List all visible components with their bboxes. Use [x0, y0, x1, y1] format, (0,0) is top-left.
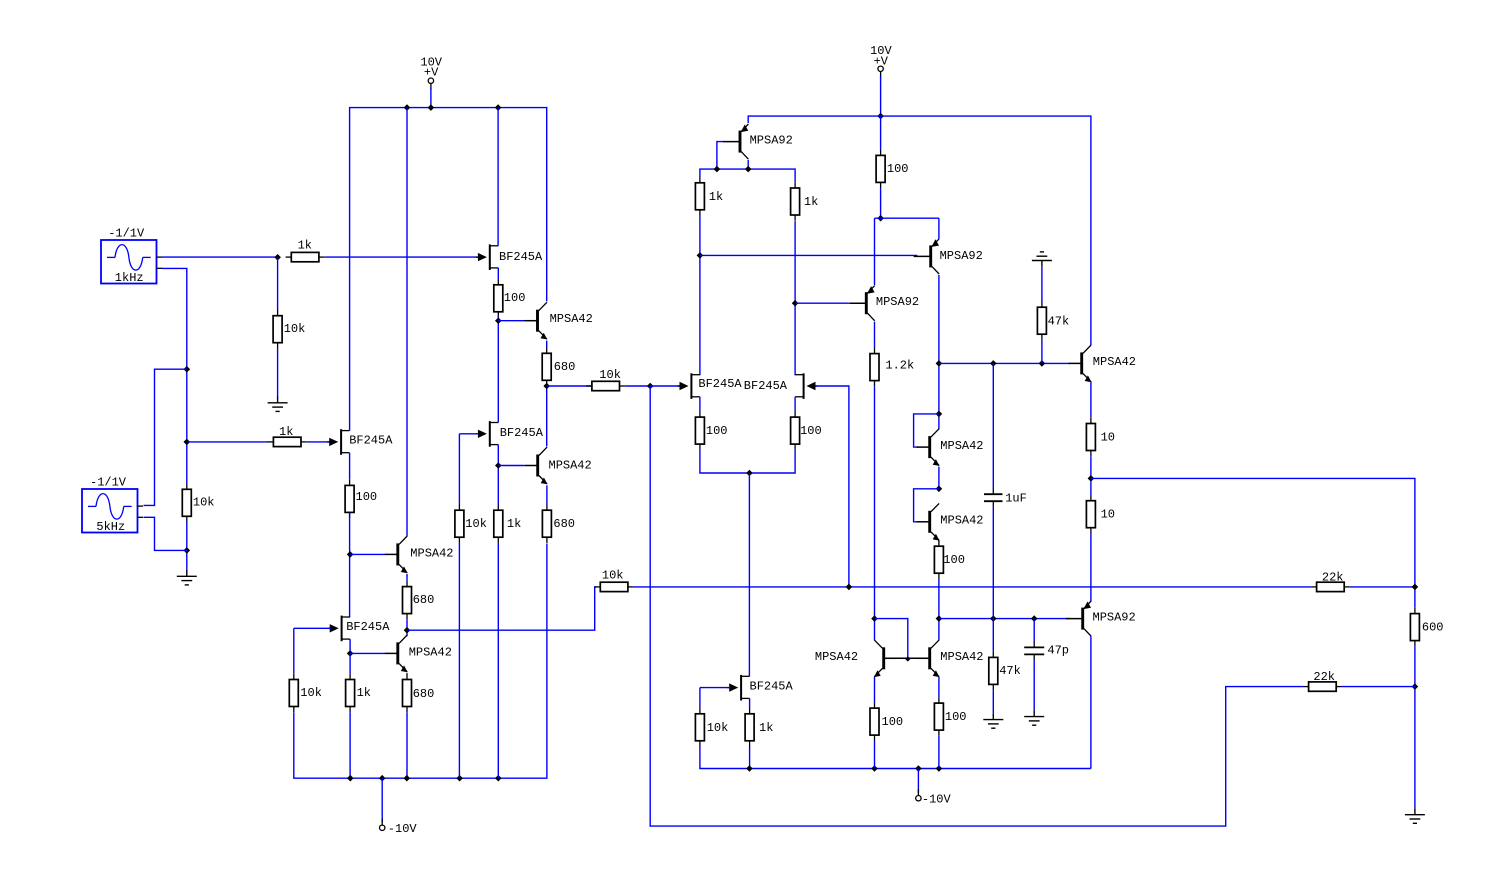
svg-text:BF245A: BF245A — [349, 434, 393, 448]
node X — [1088, 475, 1095, 482]
resistor R 10k d — [455, 505, 487, 543]
svg-text:10k: 10k — [193, 496, 215, 510]
node rail1b x350 — [347, 775, 354, 782]
svg-text:1k: 1k — [759, 721, 773, 735]
wire Q-BF3 gate wire — [294, 627, 331, 629]
svg-text:+V: +V — [874, 54, 889, 68]
wire R10k c to rail -10V — [294, 544, 547, 779]
node M2 — [745, 166, 752, 173]
resistor R 10k bias1 — [273, 310, 305, 348]
svg-text:MPSA92: MPSA92 — [1093, 611, 1136, 625]
wire diode1 loop — [914, 414, 939, 447]
node G — [647, 383, 654, 390]
node F — [543, 383, 550, 390]
terminal +V left — [428, 78, 433, 90]
terminal +V right — [878, 66, 883, 78]
wire Q-BF1 source to R100a — [497, 268, 499, 279]
transistor Q13 MPSA42 — [917, 640, 984, 677]
svg-text:1k: 1k — [804, 195, 818, 209]
svg-text:1k: 1k — [298, 239, 312, 253]
node rail3 x938 — [936, 765, 943, 772]
wire output line — [1091, 478, 1415, 608]
node Z — [1412, 683, 1419, 690]
terminal -10V right — [916, 789, 921, 801]
node T1 — [936, 411, 943, 418]
svg-text:MPSA42: MPSA42 — [1093, 355, 1136, 369]
node D — [184, 547, 191, 554]
wire node G to Q-BF5 gate — [650, 385, 679, 387]
wire R1k1 to Q-BF1 gate — [325, 256, 478, 258]
wire R10k coupling to node G — [625, 385, 650, 387]
wire R1k d to rail — [497, 543, 499, 778]
resistor R 10k mid — [182, 484, 214, 522]
node rail1 +V — [428, 104, 435, 111]
wire R22k top to node Y — [1350, 586, 1415, 588]
wire Q2 emitter to R680 mid — [546, 485, 548, 504]
transistor Q1 MPSA42 — [525, 302, 593, 339]
resistor R 100 e — [695, 411, 727, 449]
terminal -10V left — [380, 819, 385, 831]
wire Q1 emitter to R680a — [546, 341, 548, 348]
svg-text:22k: 22k — [1313, 670, 1335, 684]
wire R100top to node P — [880, 188, 882, 218]
resistor R 100 a — [494, 279, 526, 317]
svg-text:680: 680 — [413, 593, 435, 607]
node K — [347, 650, 354, 657]
svg-text:10: 10 — [1101, 508, 1115, 522]
JFET Q-BF7 BF245A — [727, 675, 793, 701]
source V1 1kHz — [101, 227, 162, 285]
wire rail3 -10V — [700, 747, 1091, 769]
wire R100b to node H — [349, 513, 351, 618]
wire node C to R 1k in2 — [187, 441, 269, 443]
wire gnd3 to R47k a — [1041, 267, 1043, 302]
node R — [871, 615, 878, 622]
node rail1b x498 — [495, 775, 502, 782]
ground GND1 — [268, 397, 288, 412]
wire R1k c to rail — [349, 712, 351, 778]
svg-text:BF245A: BF245A — [744, 379, 788, 393]
wire R100 g to rail3 — [874, 741, 876, 769]
node rail3 x749 — [746, 765, 753, 772]
node U2 — [990, 615, 997, 622]
resistor R 100 c — [934, 541, 965, 579]
wire Q5 base loop — [717, 142, 724, 170]
wire node P left down to Q7 emitter — [874, 218, 876, 285]
wire diode2 loop — [914, 489, 939, 522]
svg-text:600: 600 — [1422, 621, 1444, 635]
wire node Q to Q7 base — [795, 302, 849, 304]
svg-text:10k: 10k — [300, 686, 322, 700]
resistor R 100 f — [791, 411, 822, 449]
svg-text:10k: 10k — [599, 368, 621, 382]
node M1 — [714, 166, 721, 173]
resistor R 1k in2 — [268, 425, 307, 447]
node A — [274, 254, 281, 261]
resistor R 1.2k — [870, 348, 914, 386]
resistor R 10k fb — [595, 568, 634, 591]
svg-text:100: 100 — [800, 424, 822, 438]
wire V1.p1 to node A — [162, 256, 278, 258]
wire Q11 emitter to R10 a — [1090, 382, 1092, 418]
wire Q-BF3 source to node K — [349, 639, 351, 653]
wire node U3 to C47p — [1033, 619, 1035, 642]
node rail1 x498 — [495, 104, 502, 111]
wire node F to R10k coupling — [547, 385, 592, 387]
resistor R 1k L — [695, 177, 723, 215]
wire Q-BF7 gate to R10k e — [699, 688, 701, 709]
svg-text:47k: 47k — [999, 664, 1021, 678]
resistor R 100 top — [876, 150, 908, 188]
wire R10a to node X to R10b — [1090, 456, 1092, 495]
svg-text:-1/1V: -1/1V — [108, 227, 145, 241]
ground GND4 — [983, 713, 1003, 728]
svg-text:BF245A: BF245A — [698, 377, 742, 391]
svg-text:1k: 1k — [507, 517, 521, 531]
wire R680c to rail — [406, 712, 408, 778]
svg-text:22k: 22k — [1322, 570, 1344, 584]
node B — [184, 366, 191, 373]
resistor R 22k top — [1311, 570, 1350, 591]
svg-text:BF245A: BF245A — [750, 680, 794, 694]
wire node A to R10k bias1 — [277, 257, 279, 310]
resistor R 680 mid — [542, 505, 575, 543]
wire node U2 to R47k b — [992, 619, 994, 652]
resistor R 680 c — [403, 674, 435, 712]
wire rail2 +10V — [748, 116, 1091, 345]
svg-text:MPSA42: MPSA42 — [940, 514, 983, 528]
wire R10k bias1 to ground — [277, 348, 279, 397]
svg-text:680: 680 — [413, 687, 435, 701]
wire node K to Q4 base — [350, 652, 385, 654]
transistor Q2 MPSA42 — [525, 447, 592, 484]
node C — [184, 439, 191, 446]
wire node N to Q6 base — [700, 254, 917, 256]
svg-text:MPSA42: MPSA42 — [409, 645, 452, 659]
wire R1k e to rail3 — [749, 747, 751, 769]
resistor R 680 a — [542, 348, 575, 386]
wire diode1 emitter — [938, 467, 940, 489]
node Y — [1412, 584, 1419, 591]
svg-text:MPSA42: MPSA42 — [815, 650, 858, 664]
transistor Q11 MPSA42 — [1069, 345, 1136, 382]
ground GND6 — [1405, 808, 1425, 823]
resistor R 10k c — [289, 674, 322, 712]
resistor R 100 b — [345, 480, 377, 518]
resistor R 100 g — [870, 702, 903, 740]
wire node P right down to Q6 emitter — [938, 218, 940, 239]
svg-text:100: 100 — [887, 162, 909, 176]
wire R1kL to node N to Q-BF5 drain — [699, 216, 701, 376]
svg-text:100: 100 — [882, 715, 904, 729]
wire node B to V2.p1 — [144, 369, 187, 505]
node W — [905, 656, 910, 661]
svg-text:10k: 10k — [602, 568, 624, 582]
svg-text:+V: +V — [424, 66, 439, 80]
transistor Q3 MPSA42 — [385, 536, 454, 573]
wire Q-BF3 gate to R10k c — [293, 628, 295, 674]
node L — [495, 462, 502, 469]
wire +V right to rail2 — [880, 76, 882, 116]
svg-text:1uF: 1uF — [1005, 491, 1027, 505]
resistor R 1k c — [346, 674, 371, 712]
wire R10k mid to node D — [186, 522, 188, 570]
resistor R 10 a — [1086, 418, 1115, 456]
svg-text:MPSA42: MPSA42 — [549, 459, 592, 473]
resistor R 10k e — [695, 708, 728, 746]
svg-text:100: 100 — [943, 553, 965, 567]
svg-text:5kHz: 5kHz — [96, 520, 125, 534]
svg-text:MPSA92: MPSA92 — [940, 249, 983, 263]
wire Q-BF7 gate wire — [700, 687, 730, 689]
node S2 — [990, 360, 997, 367]
label +V left 10V — [420, 56, 442, 70]
svg-text:1k: 1k — [279, 425, 293, 439]
wire diode2 emitter to R100c — [938, 540, 940, 543]
transistor Q12 MPSA92 — [1066, 601, 1136, 636]
wire R47k a to node S3 — [1041, 340, 1043, 364]
wire Q3 emitter to R680b — [406, 574, 408, 581]
wire node K to R1k c — [349, 653, 351, 673]
svg-text:-10V: -10V — [922, 793, 952, 807]
svg-text:47k: 47k — [1048, 315, 1070, 329]
node H — [347, 551, 354, 558]
wire node H to Q3 base — [350, 553, 385, 555]
wire R680a to node F to Q2 collector — [546, 386, 548, 446]
node P — [877, 215, 884, 222]
transistor Q7 MPSA92 — [849, 286, 919, 321]
transistor Q9 MPSA42 — [917, 429, 984, 466]
svg-text:1.2k: 1.2k — [885, 358, 914, 372]
wire node V to Q-BF7 drain — [748, 473, 750, 676]
wire R100c to node U to Q13 collector — [938, 579, 940, 640]
wire +V left to rail — [430, 88, 432, 108]
wire Q5 collector to node M — [747, 160, 749, 169]
wire Q-BF4 gate wire — [459, 433, 477, 435]
wire R1k2 to Q-BF2 gate — [307, 441, 330, 443]
svg-text:-1/1V: -1/1V — [90, 476, 127, 490]
node rail1b x459 — [456, 775, 463, 782]
wire R1.2k to node R to Q8 collector — [874, 386, 876, 640]
resistor R 47k a — [1037, 302, 1069, 340]
wire Q-BF4 source to node L to R1k d — [497, 445, 499, 505]
resistor R 1k in1 — [286, 239, 325, 262]
wire V2.p2 to node D — [144, 517, 187, 550]
label -10V right — [922, 793, 952, 807]
node rail3 x874 — [871, 765, 878, 772]
wire rail to Q-BF1 drain — [497, 108, 499, 246]
ground GND5 — [1024, 710, 1044, 725]
svg-text:MPSA42: MPSA42 — [550, 312, 593, 326]
wire Q13 emitter to R100 h — [938, 677, 940, 697]
wire node R jog to bases — [875, 619, 908, 659]
wire R47k b to gnd4 — [992, 690, 994, 713]
wire R600 to node Z to gnd6 — [1414, 646, 1416, 808]
node E — [495, 317, 502, 324]
wire mirror top wire — [700, 169, 795, 182]
svg-text:100: 100 — [706, 424, 728, 438]
resistor R 1k R — [791, 182, 819, 220]
capacitor C 1uF — [984, 489, 1027, 507]
svg-text:680: 680 — [554, 360, 576, 374]
svg-text:MPSA92: MPSA92 — [750, 133, 793, 147]
svg-text:100: 100 — [504, 291, 526, 305]
svg-text:MPSA42: MPSA42 — [410, 547, 453, 561]
transistor Q5 MPSA92 — [723, 124, 793, 159]
wire Q12 collector to rail3 — [1090, 636, 1092, 768]
wire rail2 to R100top — [880, 116, 882, 150]
svg-text:47p: 47p — [1047, 644, 1069, 658]
svg-text:MPSA42: MPSA42 — [940, 439, 983, 453]
JFET Q-BF6 BF245A — [744, 373, 818, 399]
wire diff tail join — [700, 450, 795, 473]
node rail1b x382 — [379, 775, 386, 782]
node J — [404, 627, 411, 634]
resistor R 600 — [1410, 608, 1443, 646]
wire Q-BF2 source to R100b — [349, 453, 351, 480]
JFET Q-BF1 BF245A — [476, 244, 543, 270]
svg-text:1kHz: 1kHz — [115, 271, 144, 285]
wire node G to lower fb — [650, 386, 1303, 826]
wire node P bar — [875, 217, 939, 219]
wire Q-BF7 source to R1k e — [749, 698, 751, 708]
wire Q-BF5 source to R100 e — [699, 397, 701, 412]
transistor Q4 MPSA42 — [385, 635, 452, 672]
wire R100 h to rail3 — [938, 736, 940, 769]
transistor Q10 MPSA42 — [917, 503, 984, 540]
svg-text:10k: 10k — [707, 721, 729, 735]
wire Q6 collector down — [938, 275, 940, 429]
wire node J to R10k fb — [407, 587, 596, 630]
wire Q4 emitter to R680c — [406, 672, 408, 675]
resistor R 22k bot — [1303, 670, 1342, 691]
svg-text:680: 680 — [553, 517, 575, 531]
resistor R 1k d — [494, 505, 522, 543]
wire node Z to R22k bot — [1342, 686, 1415, 688]
svg-text:100: 100 — [356, 490, 378, 504]
svg-text:10k: 10k — [465, 517, 487, 531]
transistor Q8 MPSA42 — [815, 640, 897, 677]
node rail1b x407 — [404, 775, 411, 782]
label -10V left — [388, 822, 418, 836]
wire fb line — [634, 586, 1311, 588]
wire node U line to Q12 base — [939, 618, 1070, 620]
node S — [936, 360, 943, 367]
wire rail3 to -10V right — [917, 769, 919, 794]
wire rail +10V left — [350, 108, 547, 431]
label +V right 10V — [870, 44, 892, 58]
node N — [697, 252, 704, 259]
node S3 — [1039, 360, 1046, 367]
svg-text:BF245A: BF245A — [500, 426, 544, 440]
svg-text:10: 10 — [1101, 430, 1115, 444]
svg-text:BF245A: BF245A — [346, 620, 390, 634]
svg-text:MPSA42: MPSA42 — [940, 650, 983, 664]
node rail1 x407 — [404, 104, 411, 111]
resistor R 100 h — [934, 697, 966, 735]
node rail2 +V — [877, 113, 884, 120]
wire node S2 to C1uF — [992, 363, 994, 488]
svg-text:10k: 10k — [284, 322, 306, 336]
wire node E to Q1 base — [498, 320, 524, 322]
resistor R 1k e — [745, 708, 773, 746]
wire Q8 emitter to R100 g — [874, 677, 876, 702]
svg-text:1k: 1k — [709, 190, 723, 204]
node U3 — [1031, 615, 1038, 622]
wire Q-BF4 gate to R10k d — [458, 434, 460, 505]
svg-text:MPSA92: MPSA92 — [876, 295, 919, 309]
wire R1kR to node Q to Q-BF6 drain — [794, 221, 796, 375]
wire R10b to Q12 emitter — [1090, 533, 1092, 601]
source V2 5kHz — [82, 476, 143, 534]
wire rail to -10V left — [381, 778, 383, 822]
wire rail to Q3 collector — [406, 108, 408, 537]
JFET Q-BF2 BF245A — [327, 429, 393, 455]
JFET Q-BF5 BF245A — [678, 373, 743, 399]
wire R10k d to rail — [458, 543, 460, 778]
node FB — [846, 584, 853, 591]
transistor Q6 MPSA92 — [914, 239, 983, 274]
wire R680b to node J to Q4 collector — [406, 619, 408, 636]
wire node S to Q11 base — [939, 362, 1070, 364]
node V — [746, 470, 753, 477]
JFET Q-BF3 BF245A — [328, 616, 391, 642]
wire Q-BF6 source to R100 f — [794, 397, 796, 412]
node U — [936, 615, 943, 622]
resistor R 10 b — [1086, 495, 1115, 533]
svg-text:1k: 1k — [357, 686, 371, 700]
wire mirror base tie — [885, 657, 928, 659]
wire C1uF to node U2 — [992, 507, 994, 619]
capacitor C 47p — [1024, 642, 1069, 660]
node rail3 x918 — [915, 765, 922, 772]
wire Q-BF6 gate to fb — [816, 386, 849, 587]
wire R100a to node E to Q-BF4 drain — [497, 316, 499, 422]
resistor R 47k b — [989, 652, 1021, 690]
wire C47p to gnd5 — [1033, 660, 1035, 710]
svg-text:-10V: -10V — [388, 822, 418, 836]
node Q — [792, 300, 799, 307]
svg-text:BF245A: BF245A — [499, 250, 543, 264]
ground GND3 inverted — [1032, 252, 1052, 267]
wire Q7 collector to R1.2k — [874, 322, 876, 348]
label +V right +V — [874, 54, 889, 68]
JFET Q-BF4 BF245A — [476, 421, 544, 447]
wire V1.p2 down — [162, 268, 187, 483]
svg-text:100: 100 — [945, 710, 967, 724]
label +V left +V — [424, 66, 439, 80]
node T2 — [936, 486, 943, 493]
ground GND2 — [177, 570, 197, 585]
resistor R 10k coupling — [586, 368, 625, 391]
wire node L to Q2 base — [498, 465, 524, 467]
resistor R 680 b — [403, 581, 435, 619]
